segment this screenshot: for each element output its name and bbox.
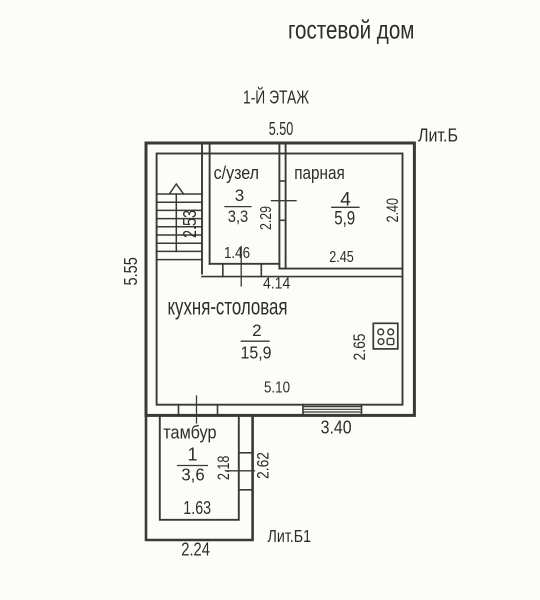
bathroom door jamb right [260, 264, 262, 277]
svg-text:2.40: 2.40 [384, 198, 402, 223]
stair direction arrow shaft [175, 194, 177, 251]
svg-text:2.29: 2.29 [258, 206, 275, 230]
svg-text:5.55: 5.55 [121, 257, 141, 286]
bathroom floor wall line [210, 263, 280, 265]
dimension line across partition [272, 200, 297, 202]
window in bottom wall: glazing lines [303, 407, 362, 412]
svg-text:кухня-столовая: кухня-столовая [168, 294, 288, 320]
partition door tick top [279, 180, 285, 182]
fraction line room 3 [225, 206, 251, 208]
stair direction arrow head [170, 184, 184, 194]
partition door tick bottom [279, 219, 285, 221]
svg-text:2.65: 2.65 [350, 334, 369, 361]
svg-text:4: 4 [340, 190, 351, 211]
bathroom left wall line [209, 143, 211, 264]
svg-text:1-Й ЭТАЖ: 1-Й ЭТАЖ [243, 87, 309, 108]
svg-text:2.62: 2.62 [253, 452, 272, 479]
svg-text:гостевой дом: гостевой дом [288, 14, 415, 44]
kitchen bottom door jamb left [178, 405, 180, 416]
svg-text:1.63: 1.63 [183, 498, 211, 518]
stove burner square [387, 338, 394, 344]
dimension crossing line below 5.10 [196, 396, 198, 423]
annex outer wall [146, 415, 253, 540]
wall stairs/bathroom left line [201, 143, 203, 274]
fraction line room 2 [241, 340, 269, 342]
stove burner circles [378, 329, 384, 335]
steam room floor wall line [281, 268, 403, 270]
fraction line room 4 [332, 206, 359, 208]
svg-text:3,6: 3,6 [181, 465, 204, 485]
svg-text:2.45: 2.45 [329, 249, 354, 266]
bathroom door jamb left [222, 264, 224, 277]
kitchen bottom door jamb right [217, 405, 219, 416]
svg-text:Лит.Б1: Лит.Б1 [268, 526, 312, 546]
svg-text:1: 1 [187, 445, 197, 465]
svg-text:2: 2 [252, 321, 261, 340]
dimension line across annex right wall [226, 470, 255, 472]
svg-text:парная: парная [294, 163, 345, 183]
partition bathroom/steam-room right line [285, 143, 287, 269]
partition bathroom/steam-room left line [278, 143, 280, 269]
svg-text:2.24: 2.24 [181, 539, 210, 559]
svg-text:Лит.Б: Лит.Б [418, 126, 458, 146]
svg-text:3: 3 [235, 186, 244, 205]
window end ticks [303, 405, 362, 416]
annex room inner wall [160, 415, 239, 519]
svg-text:5,9: 5,9 [334, 209, 355, 230]
lower wall line below bathroom and steam room [202, 276, 403, 278]
svg-text:с/узел: с/узел [214, 163, 259, 183]
main building outer wall [146, 143, 414, 415]
dimension crossing line below 1.46 [240, 247, 242, 287]
svg-text:4.14: 4.14 [263, 276, 290, 293]
main building inner wall line [157, 154, 403, 405]
svg-text:2.53: 2.53 [180, 210, 200, 238]
svg-text:15,9: 15,9 [241, 343, 272, 363]
annex right wall door tick top [239, 452, 253, 454]
svg-text:3.40: 3.40 [321, 418, 352, 438]
svg-text:тамбур: тамбур [163, 423, 216, 443]
fraction line room 1 [178, 465, 208, 467]
svg-text:5.50: 5.50 [269, 119, 294, 139]
svg-text:5.10: 5.10 [264, 380, 290, 397]
annex right wall door tick bottom [239, 489, 253, 491]
svg-text:3,3: 3,3 [228, 207, 249, 226]
stair treads [157, 194, 202, 260]
svg-text:2.18: 2.18 [215, 456, 233, 481]
svg-text:1.46: 1.46 [224, 245, 250, 262]
stove symbol box [373, 323, 398, 349]
